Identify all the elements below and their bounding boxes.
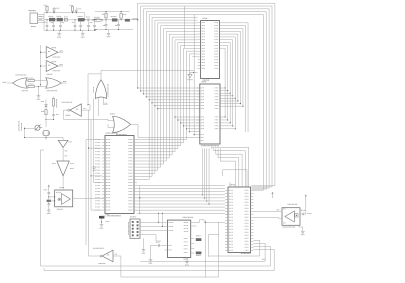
junction node gates [40,84,41,85]
wire T4 to amp1 top [62,176,64,190]
power connector J1 [29,10,30,11]
wire or-gate U11A output [100,70,102,80]
wire power left rail [43,13,45,31]
latch U1 IC1 [201,21,220,79]
fuse F1 [46,11,48,13]
wire osc junction [46,119,54,121]
capacitor C15 right of MAX232 [196,238,202,241]
ground power stage1 [58,30,60,32]
capacitor C8 below [88,21,90,25]
RS232 driver MAX232 U5 [168,220,191,257]
wires IC2 south pins down with junction dots [201,149,203,195]
wire inverter U9B input [41,65,47,67]
wire gate feed vertical B [90,120,92,210]
capacitor C13b amp1 [48,202,50,204]
microphone MK1 [18,120,21,123]
diode D2 top rail end [84,13,86,20]
capacitor C3 [60,21,62,25]
wire vertical tap near IC3 east [139,186,141,214]
capacitor C11 osc [52,113,55,115]
wires chain to amp1 [49,196,55,198]
resistor R1 stage3 [105,12,107,14]
buffer U12B pointing down [57,161,69,176]
ground MAX232 [186,258,188,260]
bus IC1 east to right verticals [223,47,226,49]
wire inverter U9C input [81,109,90,111]
wires into IC3 west pins [86,139,102,141]
wire inverter U9C output [63,109,67,111]
junction dots power stage1 [46,12,47,13]
resistor R2 [26,79,28,81]
op-amp U13 box [55,190,73,207]
wire power top rail [44,12,85,14]
+5V net label [133,18,134,19]
capacitor C12 amp1 [48,191,50,192]
inverter U9C pointing left [70,104,81,116]
bus right frame wires descend to IC4 east pins [252,3,275,186]
resistor R3 [26,85,28,87]
ground gates [38,86,40,94]
wire inverter U14 output [89,255,101,257]
capacitor C1 [46,20,48,25]
+5V arrow amp1 chain [48,185,50,191]
wire power bottom rail [44,29,95,31]
ground under IC3 [101,222,103,223]
regulator U6 [57,18,63,21]
inverter U9B [46,61,58,72]
+5V arrow amplifier [305,195,307,201]
bus bottom return lines from IC4 east pins [209,240,260,256]
ground power stage3 [108,30,110,32]
or-gate U10A mirrored [13,78,28,88]
wire inverter U9A input [41,51,47,53]
ground amp1 [48,208,50,210]
or-gate U11B [113,116,131,132]
crystal X1 [44,131,48,136]
wires header risers to bus [157,213,159,222]
wire big left loop [40,150,42,266]
wire vertical feeds to bottom [85,140,87,246]
resistor R6 amp1 blob [47,200,51,202]
wires header to MAX232 [140,221,165,223]
wire long vertical A [87,74,89,105]
crystal X2 under IC3 [107,214,109,217]
wire or-gate U11A inputs [98,97,100,116]
capacitor C7 below [80,21,82,25]
wires MAX232 east stubs [191,222,195,224]
regulator U7 [78,18,84,21]
diode D1 [53,12,55,13]
bus extra wires to IC1 lower west pins [189,53,197,55]
wire power stage3 top rail [95,11,130,13]
capacitor C14 [151,244,158,246]
ground C14 [150,245,152,258]
inverter U14 pointing left [102,250,113,262]
inverter U9A [46,47,58,59]
switch S1 small [64,19,67,21]
wires IC4 to amplifier [254,211,283,213]
capacitor CE3 flat ellipse [93,19,103,21]
decoder U2 IC2 [200,84,220,144]
wire IC4 north entry [229,182,231,187]
header J2 2x5 [130,219,140,238]
diode D3 stage3 [120,12,122,14]
ground IC1 triangle style [190,71,198,73]
wire inverter U14 input [113,255,121,257]
microcontroller U4 IC4 [228,187,251,253]
resistor R4 zigzag [45,110,47,115]
rectifier B1 [49,18,55,21]
audio amplifier U15 box [282,208,300,226]
wire amp1 output [73,198,104,200]
capacitor C18 amplifier output [300,213,302,215]
capacitor C16 polarized [196,252,202,255]
inverter U12A pointing down [58,140,68,147]
capacitor C9 below [94,21,96,25]
wires IC3 east pins across to IC4 west [137,185,225,187]
capacitor CE1 stage2 top [72,11,74,13]
capacitor C11 below [118,20,120,24]
wire vertical feed gates [40,45,42,85]
ground amplifier [299,225,303,229]
wire osc to buffer [62,147,64,161]
regulator U8 [112,18,118,21]
resistor R5 vertical [53,97,55,99]
wire crossing verticals top bundle [184,6,186,48]
bus top-left staircase and verticals [138,2,275,4]
junction dots stage3 [105,11,106,12]
capacitor C5 horizontal [86,19,88,21]
wire power main rail [44,19,138,21]
capacitor C6 below [74,20,76,25]
capacitor C10 below [105,20,107,24]
microcontroller U3 IC3 [105,136,134,214]
wires MAX232 to IC4 routing [195,220,226,223]
ground power stage2 [82,30,84,32]
+5V arrow IC4 [272,192,274,198]
or-gate U11A pointing up [95,80,106,99]
or-gate U10B [46,78,62,88]
capacitor C2 [53,21,55,25]
diode D4 oscillator [45,100,47,105]
junction dots power stage2 [74,19,75,20]
wires IC2 south pins staircase to IC4 north [211,147,248,187]
capacitor CE2 stage2 top [75,12,77,13]
ground header [143,238,145,248]
polarity mark near IC3 [93,167,95,169]
wire loop above IC4 [223,170,248,187]
regulator blob2 stage3 [125,19,130,22]
